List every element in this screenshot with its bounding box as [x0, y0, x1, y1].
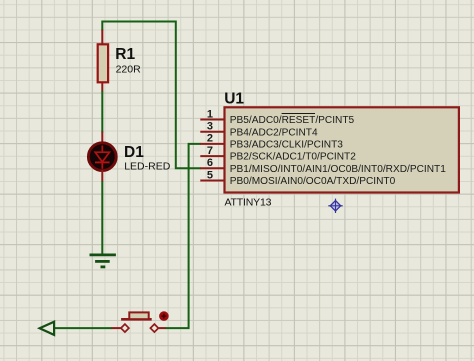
LED D1 top pin	[101, 132, 103, 144]
LED D1	[88, 143, 116, 171]
value ATTINY13	[225, 197, 272, 209]
pin 1 number	[207, 108, 213, 120]
pin 2 line	[200, 143, 224, 145]
pin 3 line	[200, 131, 224, 133]
pin label PB2/SCK/ADC1/T0/PCINT2	[230, 152, 356, 163]
arrow terminal (input)	[40, 322, 55, 335]
pin label PB3/ADC3/CLKI/PCINT3	[230, 140, 343, 151]
svg-text:ATTINY13: ATTINY13	[225, 197, 272, 209]
pin 5 number	[207, 169, 213, 181]
origin marker (blue)	[328, 199, 342, 213]
svg-text:PB2/SCK/ADC1/T0/PCINT2: PB2/SCK/ADC1/T0/PCINT2	[230, 152, 356, 163]
pin 2 number	[207, 133, 213, 145]
op IC U1 body	[225, 107, 459, 192]
svg-text:2: 2	[207, 133, 213, 145]
svg-text:3: 3	[207, 121, 213, 133]
push button left pin	[112, 327, 121, 329]
pin 3 number	[207, 121, 213, 133]
pin label PB0/MOSI/AIN0/OC0A/TXD/PCINT0	[230, 176, 396, 187]
LED D1 bottom pin	[101, 170, 103, 182]
wire: push button left pin to arrow terminal	[53, 327, 112, 329]
pin label PB1/MISO/INT0/AIN1/OC0B/INT0/RXD/PCINT1	[230, 164, 446, 175]
svg-text:5: 5	[207, 169, 213, 181]
svg-text:6: 6	[207, 157, 213, 169]
push button actuator ball	[159, 311, 169, 321]
wire: resistor top to pin 6 of U1 (net VCC path)	[102, 22, 201, 169]
svg-text:PB1/MISO/INT0/AIN1/OC0B/INT0/R: PB1/MISO/INT0/AIN1/OC0B/INT0/RXD/PCINT1	[230, 164, 446, 175]
value 220R	[116, 64, 142, 76]
push button right contact	[150, 324, 158, 332]
svg-text:PB5/ADC0/RESET/PCINT5: PB5/ADC0/RESET/PCINT5	[230, 115, 355, 126]
label R1	[115, 46, 135, 63]
pin 7 number	[207, 145, 213, 157]
svg-text:PB4/ADC2/PCINT4: PB4/ADC2/PCINT4	[230, 127, 318, 138]
pin 6 line	[200, 167, 224, 169]
label D1	[124, 144, 144, 161]
push button right pin	[159, 327, 166, 329]
value LED-RED	[124, 161, 171, 173]
svg-text:1: 1	[207, 108, 213, 120]
svg-text:R1: R1	[115, 46, 135, 63]
pin 1 line	[200, 119, 224, 121]
wire: LED cathode to ground	[101, 181, 103, 255]
svg-text:PB0/MOSI/AIN0/OC0A/TXD/PCINT0: PB0/MOSI/AIN0/OC0A/TXD/PCINT0	[230, 176, 396, 187]
svg-text:PB3/ADC3/CLKI/PCINT3: PB3/ADC3/CLKI/PCINT3	[230, 140, 343, 151]
svg-text:U1: U1	[224, 90, 244, 107]
overline on RESET	[282, 113, 315, 115]
wire: resistor bottom to LED anode	[101, 91, 103, 133]
pin 5 line	[200, 180, 224, 182]
svg-text:220R: 220R	[116, 64, 142, 76]
ground	[90, 255, 116, 267]
push button left contact	[121, 324, 129, 332]
label U1	[224, 90, 244, 107]
pin label PB4/ADC2/PCINT4	[230, 127, 318, 138]
push button cap	[129, 312, 148, 319]
pin 7 line	[200, 155, 224, 157]
resistor R1	[98, 44, 108, 82]
pin 6 number	[207, 157, 213, 169]
svg-text:7: 7	[207, 145, 213, 157]
pin label PB5/ADC0/RESET/PCINT5	[230, 115, 355, 126]
resistor R1 top pin	[101, 30, 103, 46]
svg-text:LED-RED: LED-RED	[124, 161, 171, 173]
wire: pin 2 of U1 down to push button right pin	[165, 144, 201, 328]
svg-text:D1: D1	[124, 144, 144, 161]
push button bar	[121, 318, 152, 321]
resistor R1 bottom pin	[101, 82, 103, 92]
